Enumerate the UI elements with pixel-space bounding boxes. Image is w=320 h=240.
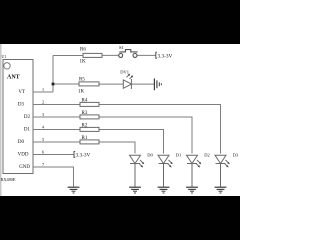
ground under D0	[129, 187, 141, 193]
resistor R2	[80, 123, 99, 131]
left edge shadow	[0, 44, 2, 196]
wire vertical VT to top row	[52, 56, 54, 93]
svg-text:1: 1	[42, 87, 44, 92]
svg-text:VT: VT	[18, 90, 25, 95]
svg-text:D3: D3	[233, 153, 239, 158]
wire VT pin stub	[33, 91, 53, 93]
svg-text:D3: D3	[18, 103, 25, 108]
svg-text:R3: R3	[82, 111, 88, 116]
wire D3 row	[33, 105, 221, 154]
svg-text:D1: D1	[176, 153, 182, 158]
svg-text:D2: D2	[204, 153, 210, 158]
LED D2	[187, 155, 202, 186]
resistor R4	[80, 98, 99, 106]
resistor R1	[80, 136, 99, 144]
svg-text:1K: 1K	[80, 60, 87, 65]
wire R6 to S1	[102, 54, 119, 56]
svg-text:VDD: VDD	[18, 153, 29, 158]
svg-text:D1: D1	[24, 128, 31, 133]
svg-text:3: 3	[42, 112, 44, 117]
svg-text:5: 5	[42, 137, 44, 142]
resistor R6	[80, 48, 103, 65]
resistor R5	[78, 77, 99, 94]
svg-text:2: 2	[42, 100, 44, 105]
svg-text:DV1: DV1	[120, 70, 129, 75]
svg-text:3.3-3V: 3.3-3V	[158, 54, 173, 60]
wire D2 row	[33, 117, 192, 154]
bottom black band	[0, 196, 240, 240]
svg-text:R4: R4	[82, 98, 88, 103]
LED DV1	[123, 74, 133, 89]
wire R5 to DV1	[99, 83, 123, 85]
ground under D3	[215, 187, 227, 193]
svg-text:S1: S1	[119, 45, 125, 50]
svg-text:D0: D0	[18, 140, 25, 145]
svg-text:R6: R6	[80, 48, 86, 53]
wire VDD pin stub	[33, 154, 74, 156]
ground under D1	[158, 187, 170, 193]
wire S1 to power	[137, 54, 156, 56]
svg-text:3.3-3V: 3.3-3V	[76, 153, 91, 159]
LED D1	[158, 155, 173, 186]
LED D3	[215, 155, 230, 186]
switch S1	[119, 50, 138, 58]
resistor R3	[80, 111, 99, 119]
wire top row to R6	[53, 55, 83, 57]
junction dot	[52, 83, 55, 86]
svg-text:D0: D0	[147, 153, 153, 158]
power terminal top 3.3-3V	[156, 52, 173, 59]
ground under D2	[186, 187, 198, 193]
svg-text:R1: R1	[82, 136, 88, 141]
power terminal VDD 3.3-3V	[74, 152, 91, 159]
wire GND pin stub	[33, 167, 74, 187]
wire R5 branch	[53, 83, 79, 85]
wire D1 row	[33, 130, 164, 154]
ground right of DV1	[154, 78, 161, 90]
IC U1 box	[3, 60, 33, 174]
svg-text:ANT: ANT	[7, 74, 20, 80]
LED D0	[130, 155, 145, 186]
wire D0 row	[33, 142, 135, 154]
svg-text:R2: R2	[82, 123, 88, 128]
svg-text:R5: R5	[79, 77, 85, 82]
svg-text:7: 7	[42, 162, 44, 167]
svg-text:RX480E: RX480E	[1, 177, 16, 182]
top black band	[0, 0, 240, 44]
svg-text:GND: GND	[19, 165, 30, 170]
ANT connector circle	[4, 63, 10, 69]
svg-text:6: 6	[42, 150, 44, 155]
wire DV1 to ground	[131, 83, 153, 85]
svg-text:U1: U1	[2, 55, 7, 59]
svg-text:1K: 1K	[78, 90, 85, 95]
ground under GND pin	[68, 187, 80, 193]
svg-text:D2: D2	[24, 115, 31, 120]
